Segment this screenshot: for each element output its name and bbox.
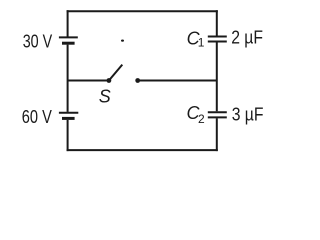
- svg-text:2: 2: [198, 112, 205, 126]
- svg-text:3 µF: 3 µF: [232, 104, 264, 124]
- svg-text:2 µF: 2 µF: [231, 27, 263, 47]
- svg-text:60 V: 60 V: [22, 107, 52, 127]
- svg-text:1: 1: [198, 36, 205, 50]
- svg-text:S: S: [99, 87, 111, 107]
- svg-text:30 V: 30 V: [23, 32, 53, 52]
